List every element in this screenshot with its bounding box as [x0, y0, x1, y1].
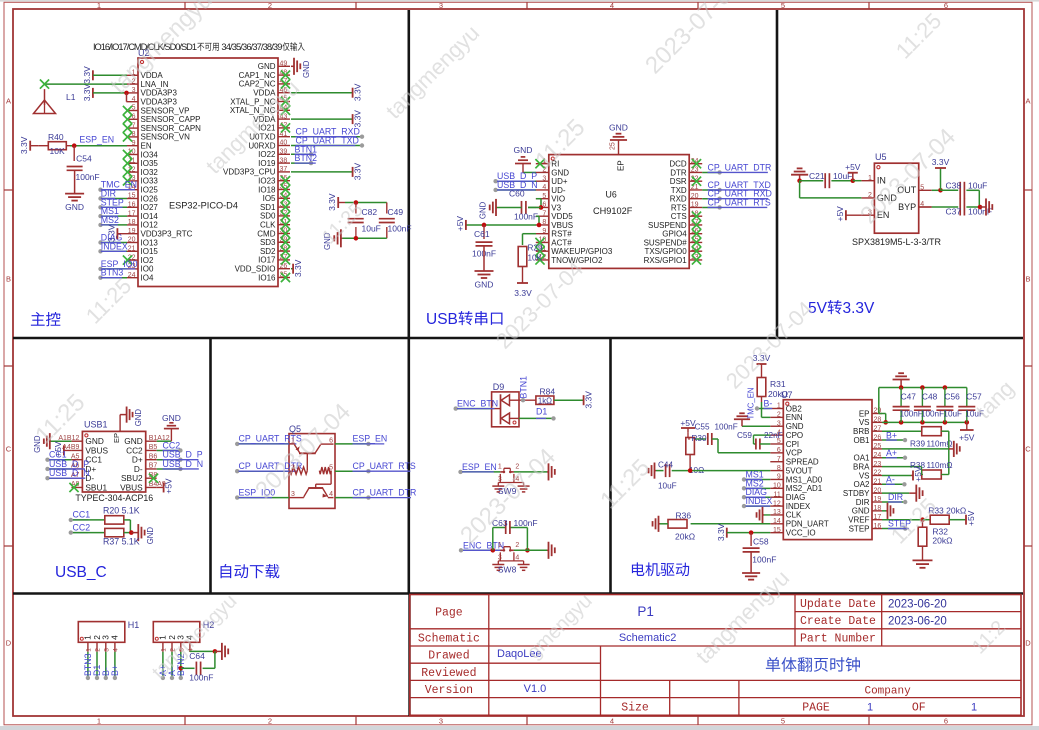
svg-text:USB_D_N: USB_D_N — [49, 468, 90, 478]
svg-text:R29: R29 — [528, 244, 543, 253]
svg-text:23: 23 — [874, 461, 882, 468]
svg-text:IO15: IO15 — [141, 247, 159, 256]
svg-text:3.3V: 3.3V — [843, 300, 876, 317]
svg-text:SD2: SD2 — [260, 247, 276, 256]
svg-text:VDDA3P3: VDDA3P3 — [141, 89, 178, 98]
svg-text:MS2_AD1: MS2_AD1 — [786, 484, 823, 493]
svg-text:20: 20 — [691, 193, 699, 200]
svg-text:GND: GND — [479, 201, 488, 219]
svg-text:CAP1_NC: CAP1_NC — [239, 71, 276, 80]
svg-text:R30: R30 — [692, 434, 707, 443]
svg-text:IO12: IO12 — [141, 221, 159, 230]
svg-text:A+: A+ — [886, 448, 897, 458]
svg-text:SENSOR_VN: SENSOR_VN — [141, 133, 191, 142]
svg-text:DIR: DIR — [856, 498, 870, 507]
svg-text:7: 7 — [777, 456, 781, 463]
svg-text:18: 18 — [128, 219, 136, 226]
svg-text:EP: EP — [859, 409, 870, 418]
svg-text:2: 2 — [268, 717, 272, 726]
svg-text:100nF: 100nF — [514, 212, 538, 222]
svg-text:OF: OF — [912, 702, 926, 715]
svg-text:VDD3P3_RTC: VDD3P3_RTC — [141, 230, 193, 239]
svg-text:VDD_SDIO: VDD_SDIO — [235, 265, 276, 274]
svg-text:1: 1 — [86, 648, 93, 652]
svg-text:R40: R40 — [48, 132, 64, 142]
svg-text:IO19: IO19 — [258, 159, 276, 168]
svg-text:8: 8 — [777, 465, 781, 472]
svg-text:BRB: BRB — [853, 427, 869, 436]
svg-text:CC1: CC1 — [73, 510, 91, 520]
svg-text:2: 2 — [777, 412, 781, 419]
svg-text:CP_UART_RTS: CP_UART_RTS — [353, 461, 416, 471]
svg-text:10: 10 — [773, 483, 781, 490]
svg-text:IO27: IO27 — [141, 203, 159, 212]
svg-text:3.3V: 3.3V — [106, 224, 116, 242]
svg-text:RST#: RST# — [551, 230, 572, 239]
svg-text:3.3V: 3.3V — [82, 66, 92, 84]
svg-text:1: 1 — [498, 542, 502, 549]
svg-text:R37 5.1K: R37 5.1K — [103, 537, 140, 547]
svg-text:IO14: IO14 — [141, 212, 159, 221]
svg-text:DCD: DCD — [669, 160, 687, 169]
svg-text:IO0: IO0 — [141, 265, 154, 274]
svg-text:Size: Size — [621, 702, 649, 715]
svg-text:100nF: 100nF — [752, 555, 776, 565]
svg-text:19: 19 — [691, 202, 699, 209]
svg-text:2023-06-20: 2023-06-20 — [888, 616, 947, 628]
svg-text:GND: GND — [302, 60, 311, 78]
svg-text:CAP2_NC: CAP2_NC — [239, 80, 276, 89]
svg-text:UD+: UD+ — [551, 177, 568, 186]
svg-text:C49: C49 — [388, 207, 404, 217]
svg-text:C59: C59 — [737, 431, 752, 440]
svg-text:IO4: IO4 — [141, 274, 154, 283]
svg-text:ENN: ENN — [786, 413, 803, 422]
svg-text:RXD: RXD — [670, 195, 687, 204]
svg-text:SENSOR_CAPP: SENSOR_CAPP — [141, 115, 201, 124]
svg-text:16: 16 — [128, 202, 136, 209]
svg-text:PDN_UART: PDN_UART — [786, 520, 829, 529]
svg-text:Company: Company — [864, 685, 911, 697]
svg-text:R84: R84 — [540, 387, 556, 397]
svg-text:C48: C48 — [922, 391, 938, 401]
svg-text:39: 39 — [280, 149, 288, 156]
svg-text:Create Date: Create Date — [800, 615, 876, 628]
svg-text:INDEX: INDEX — [786, 502, 811, 511]
svg-text:1: 1 — [498, 464, 502, 471]
svg-text:TXS/GPIO0: TXS/GPIO0 — [644, 247, 687, 256]
svg-text:Page: Page — [435, 607, 463, 620]
svg-text:VBUS: VBUS — [551, 221, 573, 230]
svg-text:CP_UART_DTR: CP_UART_DTR — [708, 162, 772, 172]
svg-text:GND: GND — [258, 62, 276, 71]
svg-text:L1: L1 — [66, 92, 76, 102]
svg-text:5: 5 — [781, 717, 785, 726]
svg-text:C54: C54 — [76, 153, 92, 163]
svg-text:IO35: IO35 — [141, 159, 159, 168]
svg-text:C58: C58 — [753, 537, 769, 547]
svg-text:CPI: CPI — [786, 440, 799, 449]
svg-text:5: 5 — [542, 193, 546, 200]
svg-text:C37: C37 — [946, 207, 962, 217]
svg-text:C44: C44 — [658, 461, 673, 470]
svg-text:1: 1 — [971, 702, 977, 714]
svg-text:USB: USB — [426, 311, 458, 328]
svg-text:110mΩ: 110mΩ — [927, 461, 953, 470]
svg-text:3: 3 — [103, 648, 110, 652]
svg-text:+5V: +5V — [835, 206, 845, 222]
svg-text:USB1: USB1 — [84, 420, 108, 430]
svg-text:C: C — [1025, 445, 1031, 454]
svg-text:D9: D9 — [493, 382, 505, 392]
svg-text:10uF: 10uF — [362, 224, 381, 234]
svg-text:GPIO4: GPIO4 — [662, 230, 687, 239]
svg-text:19: 19 — [874, 496, 882, 503]
svg-text:D: D — [6, 639, 12, 648]
svg-text:13: 13 — [773, 509, 781, 516]
svg-text:17: 17 — [128, 210, 136, 217]
svg-text:SENSOR_VP: SENSOR_VP — [141, 106, 190, 115]
svg-text:10K: 10K — [528, 254, 543, 263]
svg-text:A: A — [6, 97, 11, 106]
svg-text:7: 7 — [542, 210, 546, 217]
svg-text:3: 3 — [777, 420, 781, 427]
svg-text:C: C — [6, 445, 12, 454]
svg-text:Version: Version — [425, 684, 473, 697]
svg-text:16: 16 — [874, 523, 882, 530]
svg-text:R36: R36 — [676, 510, 692, 520]
svg-text:2: 2 — [515, 542, 519, 549]
svg-text:+5V: +5V — [455, 216, 465, 232]
svg-text:20: 20 — [128, 237, 136, 244]
svg-text:3: 3 — [542, 175, 546, 182]
svg-text:C55: C55 — [695, 423, 710, 432]
svg-text:5: 5 — [132, 105, 136, 112]
svg-text:4: 4 — [110, 635, 120, 640]
svg-text:10uF: 10uF — [968, 180, 987, 190]
svg-text:CPO: CPO — [786, 431, 803, 440]
svg-text:9: 9 — [777, 474, 781, 481]
svg-text:6: 6 — [777, 447, 781, 454]
svg-text:B7: B7 — [149, 463, 158, 470]
svg-text:21: 21 — [874, 479, 882, 486]
svg-text:8: 8 — [542, 219, 546, 226]
svg-text:C61: C61 — [474, 229, 490, 239]
svg-text:14: 14 — [773, 518, 781, 525]
svg-text:R20 5.1K: R20 5.1K — [103, 506, 140, 516]
svg-text:VS: VS — [859, 418, 870, 427]
svg-text:GND: GND — [551, 168, 569, 177]
svg-text:SUSPEND#: SUSPEND# — [644, 238, 688, 247]
svg-text:B+: B+ — [886, 430, 897, 440]
svg-text:100nF: 100nF — [76, 172, 100, 182]
svg-text:ESP_EN: ESP_EN — [462, 462, 497, 472]
svg-text:Reviewed: Reviewed — [421, 667, 476, 680]
svg-text:49: 49 — [280, 61, 288, 68]
svg-text:100nF: 100nF — [388, 224, 412, 234]
svg-text:B: B — [1025, 275, 1030, 284]
svg-text:3.3V: 3.3V — [82, 83, 92, 101]
svg-text:4: 4 — [610, 717, 614, 726]
svg-text:3.3V: 3.3V — [584, 391, 594, 409]
svg-text:D1: D1 — [536, 407, 547, 417]
svg-text:GND: GND — [134, 409, 143, 427]
svg-text:CP_UART_DTR: CP_UART_DTR — [353, 487, 417, 497]
svg-text:UD-: UD- — [551, 186, 566, 195]
svg-text:B: B — [6, 275, 11, 284]
svg-text:DSR: DSR — [670, 177, 687, 186]
svg-text:V1.0: V1.0 — [524, 683, 547, 695]
svg-text:V3: V3 — [551, 203, 561, 212]
svg-text:DTR: DTR — [670, 168, 687, 177]
svg-text:4: 4 — [132, 96, 136, 103]
svg-text:15: 15 — [128, 193, 136, 200]
svg-text:GND: GND — [852, 507, 870, 516]
svg-text:R31: R31 — [770, 379, 786, 389]
svg-text:SD1: SD1 — [260, 203, 276, 212]
svg-text:25: 25 — [610, 142, 617, 150]
svg-text:BTN1: BTN1 — [519, 376, 529, 399]
svg-text:C38: C38 — [946, 180, 962, 190]
svg-text:BYP: BYP — [898, 202, 916, 212]
svg-text:Drawed: Drawed — [428, 650, 469, 663]
svg-text:IO26: IO26 — [141, 194, 159, 203]
svg-text:22nF: 22nF — [764, 431, 783, 440]
svg-text:100nF: 100nF — [715, 423, 738, 432]
svg-text:IO2: IO2 — [141, 256, 154, 265]
svg-text:MS2: MS2 — [101, 215, 119, 225]
svg-text:4: 4 — [113, 648, 120, 652]
svg-text:U5: U5 — [875, 152, 887, 162]
svg-text:TMC_EN: TMC_EN — [747, 387, 756, 419]
svg-text:1kΩ: 1kΩ — [538, 396, 552, 405]
svg-text:GND: GND — [162, 413, 181, 423]
svg-text:OB1: OB1 — [853, 436, 870, 445]
svg-text:BRA: BRA — [853, 462, 870, 471]
svg-text:17: 17 — [874, 514, 882, 521]
svg-text:2: 2 — [268, 1, 272, 10]
svg-text:RTS: RTS — [671, 203, 687, 212]
svg-text:ESP32-PICO-D4: ESP32-PICO-D4 — [169, 201, 238, 211]
svg-text:CC2: CC2 — [73, 522, 91, 532]
svg-text:ENC_BTN: ENC_BTN — [457, 399, 498, 409]
svg-text:20kΩ: 20kΩ — [932, 536, 952, 546]
svg-text:SD3: SD3 — [260, 238, 276, 247]
svg-text:20kΩ: 20kΩ — [675, 532, 695, 542]
svg-text:3.3V: 3.3V — [19, 136, 29, 154]
svg-text:VCP: VCP — [786, 449, 802, 458]
svg-text:ESP_EN: ESP_EN — [79, 135, 114, 145]
svg-text:STEP: STEP — [849, 524, 870, 533]
svg-text:GND: GND — [475, 280, 494, 290]
svg-text:19: 19 — [128, 228, 136, 235]
svg-text:IO23: IO23 — [258, 177, 276, 186]
svg-text:BTN2: BTN2 — [295, 153, 318, 163]
svg-text:TYPEC-304-ACP16: TYPEC-304-ACP16 — [75, 493, 153, 503]
svg-text:OA1: OA1 — [853, 454, 870, 463]
svg-text:MS1_AD0: MS1_AD0 — [786, 475, 823, 484]
svg-text:SENSOR_CAPN: SENSOR_CAPN — [141, 124, 202, 133]
svg-text:24: 24 — [128, 272, 136, 279]
svg-text:9: 9 — [542, 228, 546, 235]
svg-text:ACT#: ACT# — [551, 238, 572, 247]
svg-text:B+: B+ — [110, 665, 120, 676]
svg-text:IO34: IO34 — [141, 150, 159, 159]
svg-text:+5V: +5V — [845, 162, 861, 172]
svg-text:IO32: IO32 — [141, 168, 159, 177]
svg-text:20kΩ: 20kΩ — [768, 389, 788, 399]
svg-text:EP: EP — [617, 160, 626, 171]
svg-text:3.3V: 3.3V — [353, 83, 363, 101]
svg-text:USB_C: USB_C — [55, 564, 107, 581]
svg-text:6: 6 — [944, 717, 948, 726]
svg-text:EP: EP — [112, 433, 121, 443]
svg-text:IO25: IO25 — [141, 186, 159, 195]
svg-text:10K: 10K — [50, 146, 65, 156]
svg-text:SBU1: SBU1 — [85, 482, 107, 492]
svg-text:A-: A- — [886, 475, 895, 485]
svg-text:P1: P1 — [637, 604, 654, 619]
svg-text:CH9102F: CH9102F — [593, 206, 633, 216]
svg-text:LNA_IN: LNA_IN — [141, 80, 169, 89]
svg-text:GND: GND — [146, 527, 155, 545]
svg-text:VS: VS — [859, 471, 870, 480]
svg-text:100nF: 100nF — [189, 673, 213, 683]
svg-text:15: 15 — [773, 527, 781, 534]
svg-text:2: 2 — [95, 648, 102, 652]
svg-text:GND: GND — [65, 202, 84, 212]
svg-text:25: 25 — [874, 443, 882, 450]
svg-text:B6: B6 — [149, 453, 158, 460]
svg-text:SD0: SD0 — [260, 212, 276, 221]
svg-text:VDD3P3_CPU: VDD3P3_CPU — [223, 168, 276, 177]
svg-text:OB2: OB2 — [786, 404, 803, 413]
svg-text:SUSPEND: SUSPEND — [648, 221, 687, 230]
svg-text:24: 24 — [874, 452, 882, 459]
svg-text:IO5: IO5 — [263, 194, 276, 203]
svg-text:3.3V: 3.3V — [716, 523, 726, 541]
svg-text:STDBY: STDBY — [843, 489, 870, 498]
svg-text:2023-06-20: 2023-06-20 — [888, 598, 947, 610]
svg-text:Schematic2: Schematic2 — [619, 632, 676, 644]
svg-text:4: 4 — [610, 1, 614, 10]
svg-text:Part Number: Part Number — [800, 633, 876, 646]
svg-text:3.3V: 3.3V — [293, 259, 303, 277]
svg-text:SW8: SW8 — [498, 565, 517, 575]
svg-text:4: 4 — [542, 184, 546, 191]
svg-text:IO33: IO33 — [141, 177, 159, 186]
svg-text:1: 1 — [777, 403, 781, 410]
svg-text:3.3V: 3.3V — [353, 162, 363, 180]
svg-text:+5V: +5V — [966, 510, 976, 526]
svg-text:10uF: 10uF — [658, 482, 677, 491]
svg-text:27: 27 — [874, 425, 882, 432]
svg-text:20: 20 — [874, 487, 882, 494]
svg-text:C47: C47 — [901, 391, 917, 401]
svg-text:CP_UART_RTS: CP_UART_RTS — [708, 197, 771, 207]
svg-text:RXS/GPIO1: RXS/GPIO1 — [644, 256, 688, 265]
svg-text:CLK: CLK — [260, 221, 276, 230]
svg-text:EN: EN — [141, 142, 152, 151]
svg-text:USB_D_N: USB_D_N — [163, 459, 204, 469]
svg-text:TXD: TXD — [671, 186, 687, 195]
svg-text:1: 1 — [97, 1, 101, 10]
svg-text:28: 28 — [874, 417, 882, 424]
svg-text:PAGE: PAGE — [802, 702, 830, 715]
svg-text:INDEX: INDEX — [746, 496, 773, 506]
svg-text:11: 11 — [774, 491, 781, 498]
svg-text:DIAG: DIAG — [786, 493, 806, 502]
svg-text:H1: H1 — [128, 620, 140, 630]
svg-text:C56: C56 — [944, 391, 960, 401]
svg-text:3: 3 — [439, 1, 443, 10]
svg-text:VIO: VIO — [551, 195, 565, 204]
svg-text:C21: C21 — [809, 171, 825, 181]
svg-text:SPX3819M5-L-3-3/TR: SPX3819M5-L-3-3/TR — [852, 237, 942, 247]
svg-text:GND: GND — [786, 422, 804, 431]
svg-text:3.3V: 3.3V — [327, 193, 337, 211]
svg-text:5: 5 — [920, 185, 924, 192]
svg-text:21: 21 — [128, 246, 136, 253]
svg-text:R39: R39 — [910, 440, 925, 449]
svg-text:1: 1 — [868, 175, 872, 182]
svg-text:IO22: IO22 — [258, 150, 276, 159]
svg-text:D: D — [1025, 639, 1031, 648]
svg-text:SPREAD: SPREAD — [786, 458, 819, 467]
svg-text:3: 3 — [439, 717, 443, 726]
svg-text:VBUS: VBUS — [120, 482, 143, 492]
svg-text:CLK: CLK — [786, 511, 802, 520]
svg-text:OA2: OA2 — [853, 480, 870, 489]
svg-text:1: 1 — [97, 717, 101, 726]
svg-text:Update Date: Update Date — [800, 598, 876, 611]
svg-text:6: 6 — [944, 1, 948, 10]
svg-text:5VOUT: 5VOUT — [786, 466, 813, 475]
svg-text:26: 26 — [874, 434, 882, 441]
svg-text:Q5: Q5 — [289, 424, 301, 434]
svg-text:+5V: +5V — [164, 478, 174, 494]
svg-text:+5V: +5V — [913, 466, 923, 482]
svg-text:40: 40 — [280, 140, 288, 147]
svg-text:IO17: IO17 — [258, 256, 276, 265]
svg-text:Schematic: Schematic — [418, 633, 480, 646]
svg-text:B5: B5 — [149, 444, 158, 451]
svg-text:C60: C60 — [509, 188, 525, 198]
svg-text:IO16: IO16 — [258, 273, 276, 282]
svg-text:WAKEUP/GPIO3: WAKEUP/GPIO3 — [551, 247, 613, 256]
svg-text:U6: U6 — [606, 190, 617, 200]
svg-text:A: A — [1025, 97, 1030, 106]
svg-text:CMD: CMD — [257, 229, 275, 238]
svg-text:22: 22 — [874, 470, 882, 477]
svg-text:VDD5: VDD5 — [551, 212, 573, 221]
svg-text:DIR: DIR — [888, 492, 903, 502]
svg-text:GND: GND — [609, 123, 628, 133]
svg-text:18: 18 — [874, 505, 882, 512]
svg-text:IO18: IO18 — [258, 185, 276, 194]
svg-text:CTS: CTS — [671, 212, 687, 221]
svg-text:+5V: +5V — [959, 433, 975, 443]
svg-text:38: 38 — [280, 157, 288, 164]
svg-text:100nF: 100nF — [514, 518, 538, 528]
svg-text:ESP_EN: ESP_EN — [353, 434, 388, 444]
svg-text:VREF: VREF — [848, 516, 869, 525]
svg-text:37: 37 — [280, 166, 288, 173]
svg-text:IO13: IO13 — [141, 238, 159, 247]
svg-text:VDDA3P3: VDDA3P3 — [141, 98, 178, 107]
svg-text:VCC_IO: VCC_IO — [786, 528, 816, 537]
svg-text:B-: B- — [764, 399, 773, 409]
